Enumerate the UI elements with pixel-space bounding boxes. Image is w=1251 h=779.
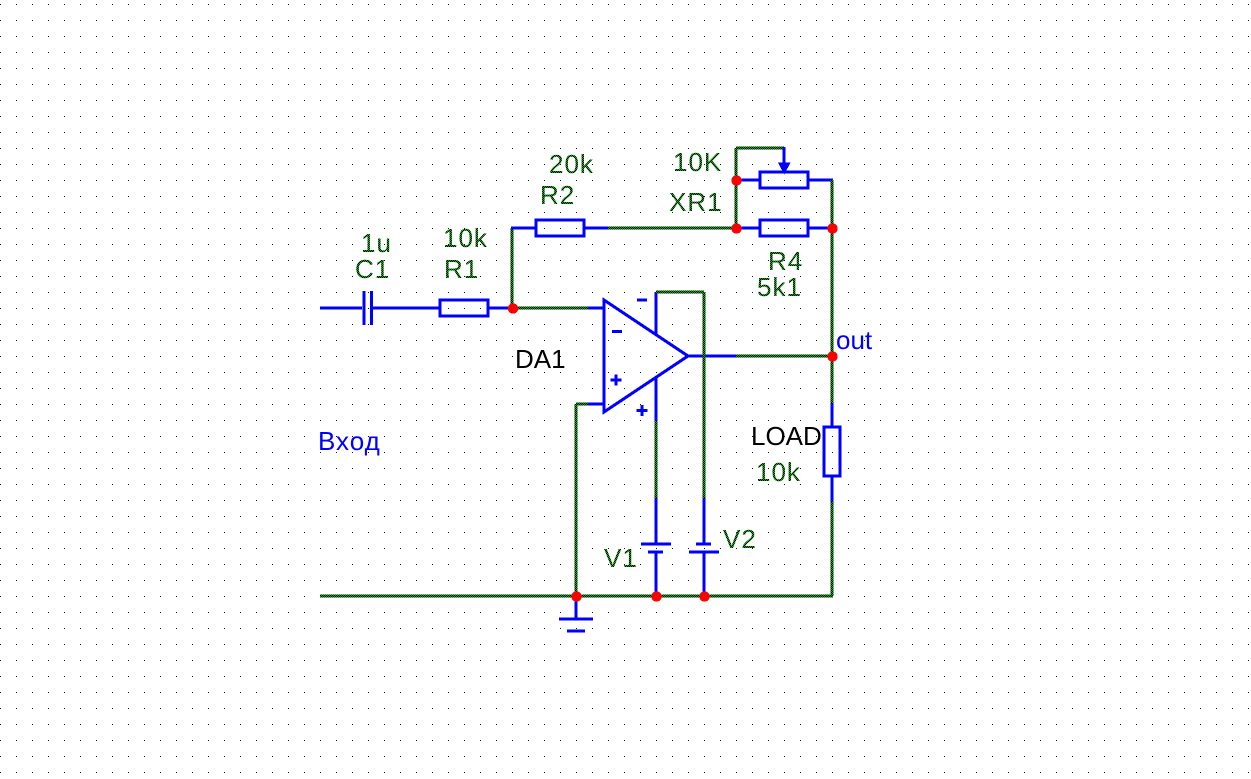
op-amp V+ power pin <box>655 292 658 335</box>
svg-text:V2: V2 <box>723 524 757 554</box>
svg-text:out: out <box>836 325 873 355</box>
wire op-amp top pin to V2 column <box>656 291 704 294</box>
wire output to out node <box>736 355 832 358</box>
pin R4 left <box>736 227 760 230</box>
potentiometer XR1 wiper arrow <box>778 147 791 175</box>
wire wiper feed <box>736 147 784 150</box>
node junction pot left <box>731 175 741 185</box>
node junction V2 <box>699 591 709 601</box>
pin LOAD top <box>831 403 834 427</box>
wire node A to op-amp inverting input <box>512 307 588 310</box>
op-amp inverting input pin <box>588 307 604 310</box>
wire out node down to LOAD <box>831 356 834 403</box>
svg-text:10K: 10K <box>673 147 722 177</box>
svg-text:V1: V1 <box>604 543 638 573</box>
node junction ground <box>571 591 581 601</box>
svg-text:LOAD: LOAD <box>751 421 822 451</box>
ground <box>559 598 593 631</box>
wire non-inverting input down <box>576 403 588 406</box>
wire LOAD to ground bus <box>831 502 834 596</box>
node junction R4 left <box>731 223 741 233</box>
node junction at R1 output <box>508 303 518 313</box>
op-amp V+ pin minus mark <box>637 299 647 302</box>
op-amp inverting mark <box>612 330 622 333</box>
svg-text:10k: 10k <box>443 223 488 253</box>
wire node C down to out <box>831 228 834 356</box>
wire C1 to R1 <box>373 307 440 310</box>
resistor R2 <box>536 220 584 236</box>
capacitor C1 <box>364 291 372 325</box>
node junction V1 <box>651 591 661 601</box>
op-amp non-inverting mark <box>611 375 622 386</box>
pin R2 right <box>584 227 608 230</box>
op-amp DA1 triangle <box>604 300 688 412</box>
op-amp output pin <box>688 355 736 358</box>
svg-text:XR1: XR1 <box>669 187 723 217</box>
battery V2 <box>689 498 719 596</box>
pin R1 right <box>488 307 512 310</box>
pin LOAD bottom <box>831 476 834 502</box>
svg-text:R1: R1 <box>444 254 479 284</box>
svg-text:DA1: DA1 <box>515 344 566 374</box>
wire V2 column down <box>703 292 706 498</box>
resistor R1 <box>440 300 488 316</box>
pin XR1 right <box>808 179 833 182</box>
wire ground bus <box>320 595 833 598</box>
svg-text:20k: 20k <box>549 149 594 179</box>
wire non-inverting column to ground bus <box>575 404 578 596</box>
wire node A up to R2 <box>511 228 514 308</box>
svg-text:10k: 10k <box>756 457 801 487</box>
wire node B up to pot left <box>735 148 738 228</box>
node junction R4 right <box>827 223 837 233</box>
resistor R4 <box>760 220 808 236</box>
op-amp non-inverting input pin <box>588 403 604 406</box>
svg-text:Вход: Вход <box>318 426 381 456</box>
wire input to C1 <box>320 307 362 310</box>
wire pot right down to node C <box>831 180 834 228</box>
svg-text:5k1: 5k1 <box>757 272 802 302</box>
svg-text:R2: R2 <box>540 180 575 210</box>
pin R2 left <box>511 227 536 230</box>
pin R4 right <box>808 227 832 230</box>
wire R2 to node B <box>608 227 736 230</box>
battery V1 <box>641 498 671 596</box>
op-amp V- pin plus mark <box>637 405 648 416</box>
node junction out <box>827 351 837 361</box>
potentiometer XR1 body <box>760 172 808 188</box>
wire op-amp bottom pin down to V1 <box>655 421 658 498</box>
resistor LOAD <box>824 427 840 476</box>
op-amp V- power pin <box>655 377 658 421</box>
pin XR1 left <box>736 179 760 182</box>
svg-text:C1: C1 <box>355 254 390 284</box>
